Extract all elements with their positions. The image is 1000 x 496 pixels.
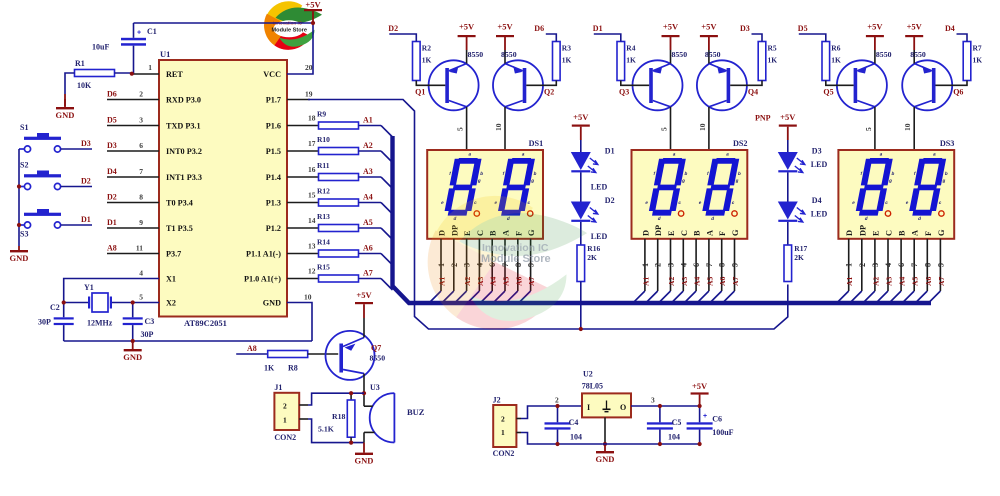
wire S3 to net D1 (61, 224, 92, 226)
svg-text:E: E (667, 230, 676, 236)
svg-text:A5: A5 (705, 277, 714, 286)
resistor R9 (319, 122, 359, 129)
svg-text:1: 1 (845, 263, 854, 267)
power +5V above Q6 (905, 35, 923, 37)
svg-text:D1: D1 (107, 218, 117, 227)
wire Q1 collector to display pin 5 (466, 107, 468, 150)
wire buttons common rail (18, 149, 20, 246)
node D1 label and stub (594, 34, 621, 42)
resistor R17 2K (784, 245, 792, 282)
node junction C4 bottom (555, 442, 559, 446)
power +5V at U2 output (691, 392, 709, 394)
power +5V above Q5 (866, 35, 884, 37)
LED D3 (778, 152, 798, 170)
svg-text:O: O (620, 403, 626, 412)
svg-text:P1.4: P1.4 (266, 173, 281, 182)
svg-text:D5: D5 (798, 24, 808, 33)
DS2 digit 1 segments (642, 152, 692, 221)
wire C1 top to +5V rail (133, 23, 135, 38)
svg-text:LED: LED (811, 210, 828, 219)
node junction RST (130, 72, 134, 76)
DS2 pin 8 (F) leg (721, 239, 723, 291)
svg-text:A1: A1 (641, 277, 650, 286)
svg-text:D2: D2 (107, 193, 117, 202)
capacitor C6 100uF (699, 406, 701, 422)
wire U1 pin 17 stub (287, 150, 319, 152)
svg-text:A8: A8 (247, 344, 257, 353)
switch S1 (24, 146, 30, 152)
svg-text:GND: GND (263, 299, 281, 308)
svg-text:2: 2 (501, 415, 505, 424)
resistor R4 1K (base of Q3) (617, 42, 625, 81)
wire U1 pin 12 stub (287, 278, 319, 280)
wire R8 to Q7 base (308, 353, 339, 355)
svg-text:LED: LED (811, 160, 828, 169)
LED D2 (571, 202, 591, 220)
svg-text:P1.5: P1.5 (266, 147, 281, 156)
svg-text:C4: C4 (569, 418, 579, 427)
wire U1 pin 14 stub (287, 227, 319, 229)
svg-text:Q3: Q3 (619, 88, 629, 97)
svg-text:2: 2 (654, 263, 663, 267)
svg-text:6: 6 (692, 263, 701, 267)
wire DS1 pin 2 to bus (442, 291, 454, 303)
capacitor C2 plates (54, 317, 74, 319)
wire DS3 pin 6 to bus (890, 291, 902, 303)
wire R1 to RST (115, 72, 132, 74)
LED D4 (778, 202, 798, 220)
svg-text:A1: A1 (845, 277, 854, 286)
svg-text:S3: S3 (20, 230, 28, 239)
svg-text:D6: D6 (534, 24, 544, 33)
wire DS1 pin 3 to bus (455, 291, 467, 303)
svg-text:20: 20 (305, 63, 313, 72)
svg-text:104: 104 (668, 433, 680, 442)
svg-text:1: 1 (283, 416, 287, 425)
svg-text:7: 7 (139, 167, 143, 176)
resistor R12 (319, 199, 359, 206)
svg-text:8550: 8550 (370, 354, 386, 363)
svg-text:15: 15 (308, 191, 316, 200)
transistor Q4 8550 (697, 60, 747, 110)
svg-text:G: G (937, 229, 946, 236)
wire C1 bottom to RST junction (133, 46, 135, 74)
node D5 label and stub (799, 34, 826, 42)
svg-text:R5: R5 (768, 44, 777, 53)
svg-text:D5: D5 (107, 116, 117, 125)
transistor Q2 8550 (493, 60, 543, 110)
DS1 pin 4 (C) leg (478, 239, 480, 291)
svg-text:A5: A5 (911, 277, 920, 286)
bus A1-A7 to displays (393, 136, 932, 303)
svg-text:D3: D3 (107, 141, 117, 150)
svg-text:8: 8 (718, 263, 727, 267)
svg-text:U1: U1 (160, 49, 170, 59)
svg-text:P1.1 A1(-): P1.1 A1(-) (246, 250, 281, 259)
svg-text:11: 11 (136, 244, 143, 253)
capacitor C1 plates (121, 38, 146, 41)
svg-text:E: E (871, 230, 880, 236)
svg-text:14: 14 (308, 216, 316, 225)
svg-text:A7: A7 (937, 277, 946, 286)
svg-text:G: G (731, 229, 740, 236)
logo Innovation IC Module Store (264, 1, 322, 50)
svg-text:8: 8 (923, 263, 932, 267)
svg-text:P3.7: P3.7 (166, 250, 181, 259)
DS3 pin 3 (E) leg (874, 239, 876, 291)
node junction C3 top (131, 300, 135, 304)
node D4 label and stub (957, 34, 968, 42)
svg-text:RET: RET (166, 70, 183, 79)
display DS1 dual 7-segment body (427, 150, 543, 239)
svg-text:1: 1 (501, 428, 505, 437)
wire DS1 pin 8 to bus (506, 291, 518, 303)
node junction R18 bottom (349, 441, 353, 445)
crystal Y1 (92, 293, 108, 312)
node junction R18 top (349, 391, 353, 395)
svg-text:4: 4 (884, 263, 893, 267)
svg-text:10uF: 10uF (92, 43, 109, 52)
svg-text:A5: A5 (363, 218, 373, 227)
svg-text:6: 6 (139, 141, 143, 150)
wire DS1 pin 6 to bus (481, 291, 493, 303)
DS3 pin 2 (DP) leg (861, 239, 863, 291)
wire Q6 collector to display pin 10 (913, 107, 915, 150)
DS1 digit 1 segments (438, 152, 488, 221)
svg-text:Module Store: Module Store (481, 253, 551, 265)
svg-text:9: 9 (936, 263, 945, 267)
regulator U2 78L05 body (582, 393, 631, 417)
svg-text:13: 13 (308, 242, 316, 251)
svg-text:10K: 10K (77, 81, 92, 90)
node D3 label and stub (752, 34, 763, 42)
svg-text:D: D (845, 230, 854, 236)
resistor R3 1K (base of Q2) (553, 42, 561, 81)
svg-text:LED: LED (591, 232, 608, 241)
wire DS2 pin 2 to bus (646, 291, 658, 303)
wire A8 to R8 (236, 353, 268, 355)
svg-text:10: 10 (494, 123, 503, 131)
wire D1 to D2 (580, 172, 582, 201)
DS2 digit 2 segments (695, 152, 745, 221)
svg-text:R3: R3 (562, 44, 571, 53)
wire P1.7 colon drive (287, 99, 310, 101)
svg-text:+: + (703, 413, 707, 420)
capacitor C4 (557, 406, 559, 422)
svg-text:J2: J2 (493, 396, 501, 405)
svg-text:2K: 2K (794, 253, 804, 262)
svg-text:A3: A3 (680, 277, 689, 286)
wire DS2 pin 8 to bus (710, 291, 722, 303)
svg-text:D1: D1 (81, 215, 91, 224)
svg-text:R15: R15 (317, 263, 330, 272)
svg-text:CON2: CON2 (274, 433, 296, 442)
svg-text:A2: A2 (363, 141, 373, 150)
svg-text:30P: 30P (38, 318, 51, 327)
node junction C6 bottom (698, 442, 702, 446)
svg-text:A6: A6 (363, 244, 373, 253)
svg-text:CON2: CON2 (493, 449, 515, 458)
DS1 pin 9 (G) leg (530, 239, 532, 291)
svg-text:C6: C6 (712, 415, 722, 424)
DS2 pin 2 (DP) leg (657, 239, 659, 291)
svg-text:F: F (718, 231, 727, 236)
svg-text:5: 5 (456, 127, 465, 131)
wire net D1 stub to U1 pin 9 (107, 227, 159, 229)
svg-text:2: 2 (139, 90, 143, 99)
DS2 pin 7 (A) leg (708, 239, 710, 291)
wire DS3 pin 1 to bus (837, 291, 849, 303)
DS3 digit 2 segments (902, 152, 952, 221)
svg-text:C3: C3 (145, 317, 155, 326)
svg-text:1K: 1K (973, 56, 983, 65)
ground crystal rail (132, 341, 134, 349)
wire DS2 pin 4 to bus (672, 291, 684, 303)
svg-text:+5V: +5V (692, 381, 708, 391)
svg-text:17: 17 (308, 139, 316, 148)
wire gnd rail under chip (64, 340, 312, 342)
svg-text:19: 19 (305, 90, 313, 99)
svg-text:6: 6 (897, 263, 906, 267)
wire Q3 collector to display pin 5 (670, 107, 672, 150)
node junction Y1 left (62, 300, 66, 304)
svg-text:RXD P3.0: RXD P3.0 (166, 96, 201, 105)
node junction gnd rail (131, 339, 135, 343)
DS2 pin 3 (E) leg (670, 239, 672, 291)
svg-text:D2: D2 (388, 24, 398, 33)
wire J1 pin1 to gnd rail (308, 419, 364, 443)
svg-text:D3: D3 (812, 147, 822, 156)
svg-text:T0 P3.4: T0 P3.4 (166, 199, 193, 208)
DS1 digit 2 segments (491, 152, 541, 221)
svg-text:3: 3 (667, 263, 676, 267)
resistor R16 2K (577, 245, 585, 282)
wire C2 to gnd rail (63, 325, 65, 341)
resistor R7 1K (base of Q6) (963, 42, 971, 81)
svg-text:8550: 8550 (876, 50, 892, 59)
wire net D4 stub to U1 pin 7 (107, 176, 159, 178)
svg-text:U3: U3 (370, 383, 380, 392)
node junction R16 bottom (579, 327, 583, 331)
wire R6 to Q5 base (826, 81, 854, 86)
svg-text:10: 10 (903, 123, 912, 131)
resistor R2 1K (base of Q1) (413, 42, 421, 81)
svg-text:+5V: +5V (459, 22, 475, 32)
power +5V above Q3 (662, 35, 680, 37)
resistor R8 1K (268, 351, 308, 358)
op-amp U1 AT89C2051 body (159, 60, 287, 317)
wire DS2 pin 1 to bus (633, 291, 645, 303)
resistor R15 (319, 275, 359, 282)
wire DS2 pin 6 to bus (685, 291, 697, 303)
node junction C5 top (658, 404, 662, 408)
wire U1 pin 13 stub (287, 253, 319, 255)
svg-text:A3: A3 (885, 277, 894, 286)
svg-text:DS2: DS2 (733, 139, 748, 148)
ground below R1 (64, 99, 66, 107)
wire DS3 pin 7 to bus (903, 291, 915, 303)
svg-text:9: 9 (731, 263, 740, 267)
ground below buzzer (363, 443, 365, 453)
svg-text:Y1: Y1 (84, 283, 94, 292)
svg-text:1: 1 (148, 63, 152, 72)
svg-text:B: B (898, 230, 907, 236)
svg-text:INT1 P3.3: INT1 P3.3 (166, 173, 202, 182)
svg-text:A7: A7 (363, 269, 373, 278)
transistor Q1 8550 (429, 60, 479, 110)
svg-text:A4: A4 (363, 193, 373, 202)
wire DS2 common anode top pin (670, 136, 672, 150)
wire net A8 stub to U1 pin 11 (107, 253, 159, 255)
svg-text:1: 1 (641, 263, 650, 267)
svg-text:R2: R2 (422, 44, 431, 53)
svg-text:R7: R7 (973, 44, 982, 53)
svg-text:GND: GND (596, 454, 615, 464)
svg-text:D2: D2 (605, 196, 615, 205)
wire J1 pin2 to R18 rail (308, 393, 364, 405)
svg-text:R1: R1 (75, 59, 85, 68)
DS2 pin 1 (D) leg (644, 239, 646, 291)
resistor R13 (319, 225, 359, 232)
svg-text:C2: C2 (50, 303, 60, 312)
svg-text:5: 5 (139, 293, 143, 302)
svg-text:DS1: DS1 (529, 139, 544, 148)
svg-text:T1 P3.5: T1 P3.5 (166, 224, 193, 233)
transistor Q7 8550 (326, 331, 375, 380)
DS2 decimal point marks (678, 211, 683, 216)
wire net D6 stub to U1 pin 2 (107, 99, 159, 101)
svg-text:D3: D3 (740, 24, 750, 33)
wire R14 to net A6 (359, 253, 382, 255)
wire R3 to Q2 base (526, 81, 556, 86)
display DS3 dual 7-segment body (838, 150, 954, 239)
node junction C4 top (555, 404, 559, 408)
wire C3 vertical (132, 303, 134, 318)
transistor Q6 8550 (902, 60, 952, 110)
svg-text:R13: R13 (317, 212, 330, 221)
svg-text:A7: A7 (731, 277, 740, 286)
svg-text:AT89C2051: AT89C2051 (184, 318, 227, 328)
svg-text:R12: R12 (317, 187, 330, 196)
resistor R18 5.1K (350, 393, 352, 400)
svg-text:9: 9 (139, 218, 143, 227)
svg-text:DP: DP (858, 225, 867, 236)
svg-text:R10: R10 (317, 135, 330, 144)
wire gnd rail to C6 (603, 443, 700, 445)
DS1 pin 2 (DP) leg (453, 239, 455, 291)
svg-text:D1: D1 (593, 24, 603, 33)
switch S3 (24, 222, 30, 228)
switch S2 (24, 183, 30, 189)
svg-text:1K: 1K (562, 56, 572, 65)
svg-text:R11: R11 (317, 161, 330, 170)
svg-text:+5V: +5V (907, 22, 923, 32)
svg-text:X1: X1 (166, 275, 176, 284)
wire R9 to net A1 (359, 125, 382, 127)
svg-text:Q4: Q4 (748, 88, 758, 97)
node junction S2 rail (17, 184, 21, 188)
wire R10 to net A2 (359, 150, 382, 152)
ground below U2 (604, 444, 606, 451)
svg-text:10: 10 (304, 293, 312, 302)
wire DS2 common anode top pin (708, 136, 710, 150)
svg-text:Q2: Q2 (544, 88, 554, 97)
svg-text:+5V: +5V (663, 22, 679, 32)
wire D4 to R17 (787, 222, 789, 245)
wire R4 to Q3 base (621, 81, 649, 86)
svg-text:+5V: +5V (780, 112, 796, 122)
svg-text:A2: A2 (667, 277, 676, 286)
svg-text:A3: A3 (363, 167, 373, 176)
svg-text:P1.2: P1.2 (266, 224, 281, 233)
wire J2 pin2 to U2 input (521, 406, 582, 419)
wire R15 to net A7 (359, 278, 382, 280)
svg-text:DS3: DS3 (940, 139, 955, 148)
node junction C6 top (698, 404, 702, 408)
svg-text:U2: U2 (583, 370, 593, 379)
wire Q2 collector to display pin 10 (504, 107, 506, 150)
svg-text:100uF: 100uF (712, 428, 733, 437)
svg-text:3: 3 (871, 263, 880, 267)
svg-text:A2: A2 (871, 277, 880, 286)
DS1 pin 6 (B) leg (491, 239, 493, 291)
svg-text:30P: 30P (141, 330, 154, 339)
wire U1 pin 15 stub (287, 202, 319, 204)
svg-text:Q1: Q1 (415, 88, 425, 97)
wire DS2 pin 7 to bus (697, 291, 709, 303)
svg-text:1K: 1K (264, 364, 275, 373)
svg-text:+5V: +5V (701, 22, 717, 32)
svg-text:A4: A4 (693, 277, 702, 286)
svg-text:Q5: Q5 (823, 88, 833, 97)
svg-text:A6: A6 (924, 277, 933, 286)
power +5V above Q2 (496, 35, 514, 37)
svg-text:INT0 P3.2: INT0 P3.2 (166, 147, 202, 156)
svg-text:1K: 1K (768, 56, 778, 65)
wire DS3 common anode top pin (874, 136, 876, 150)
connector J2 CON2 (493, 405, 516, 447)
svg-text:R4: R4 (626, 44, 635, 53)
capacitor C3 plates (123, 317, 143, 319)
transistor Q5 8550 (837, 60, 887, 110)
svg-text:A6: A6 (718, 277, 727, 286)
svg-text:PNP: PNP (755, 114, 771, 123)
svg-text:12MHz: 12MHz (87, 319, 113, 328)
DS3 pin 9 (G) leg (939, 239, 941, 291)
svg-text:8550: 8550 (672, 50, 688, 59)
wire U2 output rail (631, 405, 700, 407)
wire net D3 stub to U1 pin 6 (107, 150, 159, 152)
node junction S3 rail (17, 223, 21, 227)
svg-text:Q6: Q6 (953, 88, 963, 97)
svg-text:D3: D3 (81, 139, 91, 148)
svg-text:2: 2 (858, 263, 867, 267)
DS3 pin 1 (D) leg (848, 239, 850, 291)
svg-text:A4: A4 (898, 277, 907, 286)
capacitor C5 (659, 406, 661, 422)
wire X1 loop (64, 279, 159, 318)
svg-text:X2: X2 (166, 299, 176, 308)
svg-text:D1: D1 (605, 147, 615, 156)
svg-text:P1.6: P1.6 (266, 122, 281, 131)
svg-text:3: 3 (139, 116, 143, 125)
DS3 pin 6 (B) leg (900, 239, 902, 291)
DS1 pin 1 (D) leg (440, 239, 442, 291)
svg-text:D4: D4 (945, 24, 955, 33)
svg-text:8550: 8550 (501, 50, 517, 59)
svg-text:2: 2 (555, 396, 559, 405)
svg-text:A: A (911, 230, 920, 236)
